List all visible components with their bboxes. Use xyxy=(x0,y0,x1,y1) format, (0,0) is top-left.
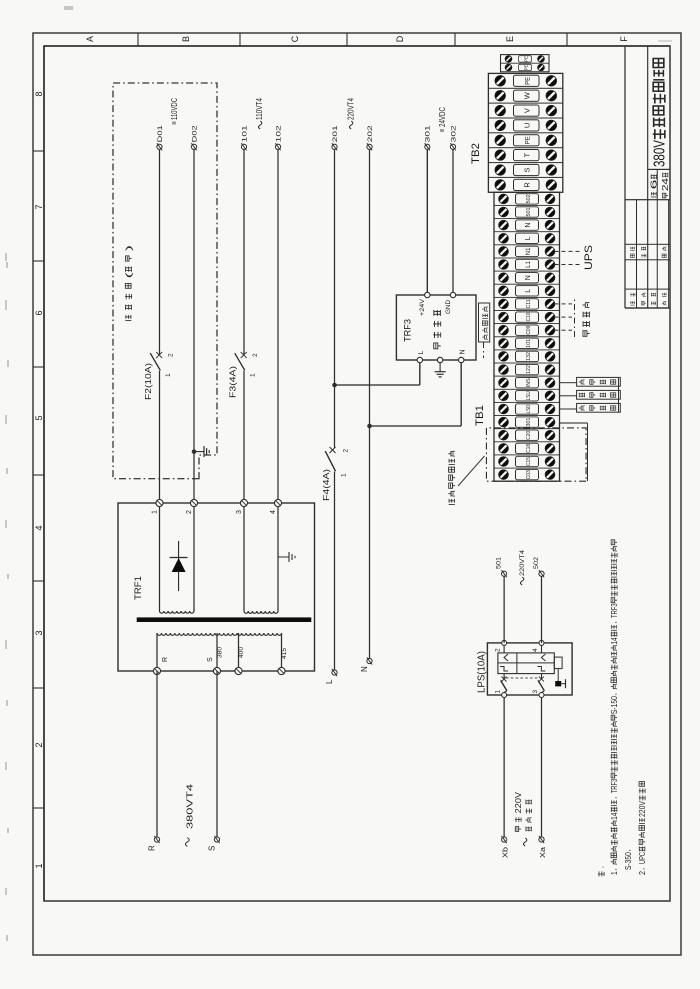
svg-text:C11: C11 xyxy=(526,299,532,308)
svg-text:GND: GND xyxy=(445,300,452,314)
svg-text:Xa: Xa xyxy=(538,846,547,858)
svg-text:24: 24 xyxy=(661,177,670,191)
TRF3 earth connection xyxy=(439,363,441,372)
svg-text:C09: C09 xyxy=(526,326,532,335)
wire 301 +24V output xyxy=(426,150,428,296)
svg-text:501: 501 xyxy=(496,557,503,569)
transformer TRF1 box xyxy=(118,503,315,671)
TB2 terminal S 2 xyxy=(488,164,562,177)
wire 502 from LPS pin 4 xyxy=(541,576,543,643)
svg-text:4: 4 xyxy=(270,510,277,514)
wire end 501 xyxy=(496,557,507,578)
fuse switch F3(4A) xyxy=(229,352,260,398)
title block header column signatures xyxy=(630,293,666,305)
scan artifact marks left edge xyxy=(6,253,8,941)
svg-text:380VT4: 380VT4 xyxy=(186,783,195,829)
ground on wire D02 xyxy=(192,446,210,457)
UPS dashed connections xyxy=(555,250,581,252)
TB1 terminal 502 pos22 xyxy=(494,194,560,206)
svg-text:2: 2 xyxy=(638,871,647,875)
wire R supply xyxy=(156,671,158,838)
svg-text:1: 1 xyxy=(495,690,502,694)
scan artifact top corner xyxy=(64,6,73,10)
TB1 terminal INS pos8 xyxy=(494,378,560,390)
svg-text:F2(10A): F2(10A) xyxy=(144,363,153,400)
svg-text:S: S xyxy=(208,846,217,851)
svg-text:132: 132 xyxy=(526,352,532,361)
TB1 terminal L pos19 xyxy=(494,233,560,245)
svg-text:L: L xyxy=(525,236,532,240)
TB1 terminal LSU pos7 xyxy=(494,391,560,403)
label 380VT4 xyxy=(185,783,194,846)
svg-text:5: 5 xyxy=(34,415,44,420)
svg-text:INS: INS xyxy=(526,378,532,388)
svg-text:A: A xyxy=(85,36,95,42)
label 220VT4 LPS output xyxy=(519,550,526,585)
svg-text:301: 301 xyxy=(526,417,532,426)
svg-text:110VDC: 110VDC xyxy=(170,98,179,120)
svg-text:380: 380 xyxy=(217,646,224,658)
svg-text:415: 415 xyxy=(281,647,288,659)
title block grid xyxy=(624,46,626,308)
wire 302 GND output xyxy=(452,150,454,296)
title block header column revision xyxy=(630,247,666,258)
svg-text:D01: D01 xyxy=(157,125,164,142)
svg-text:R: R xyxy=(148,845,157,851)
svg-text:PE: PE xyxy=(526,77,532,85)
junction on wire 201 xyxy=(332,383,337,388)
svg-text:1: 1 xyxy=(341,473,348,477)
wire Xa to LPS pin 3 xyxy=(541,698,543,838)
svg-text:TRF3: TRF3 xyxy=(610,778,619,793)
svg-text:2: 2 xyxy=(343,449,350,453)
diode D in TRF1 xyxy=(170,541,188,591)
TB1 terminal L1 pos17 xyxy=(494,259,560,271)
svg-text:102: 102 xyxy=(275,125,282,142)
svg-text:N: N xyxy=(525,223,532,228)
TB1 terminal C09 pos12 xyxy=(494,325,560,337)
shaft lighting label xyxy=(583,302,590,336)
svg-text:3: 3 xyxy=(236,510,243,514)
svg-text:LSU: LSU xyxy=(526,391,532,400)
wire end 102 xyxy=(275,125,282,150)
svg-text:L1: L1 xyxy=(526,261,532,268)
TRF1 tap 400 xyxy=(235,646,245,674)
TB1 terminal N pos16 xyxy=(494,273,560,285)
svg-text:2: 2 xyxy=(252,353,259,357)
LPS inner release box xyxy=(498,653,554,674)
svg-text:C03: C03 xyxy=(526,470,532,479)
TB1 terminal N pos20 xyxy=(494,220,560,232)
fire-center label xyxy=(448,451,455,505)
fire-center dash-dot box around C03-C20 xyxy=(486,428,586,481)
svg-text:220VT4: 220VT4 xyxy=(346,98,355,120)
svg-text:L: L xyxy=(525,289,532,293)
svg-text:S: S xyxy=(523,167,532,172)
label 110VDC xyxy=(170,98,179,125)
svg-text:4: 4 xyxy=(34,525,44,530)
wire end S xyxy=(208,836,220,851)
svg-text:380V: 380V xyxy=(652,140,669,167)
wire 101 xyxy=(243,371,245,503)
wire end D01 xyxy=(157,125,164,150)
shaft lighting dashed connections xyxy=(555,329,573,331)
TB1 terminal N1 pos18 xyxy=(494,246,560,258)
svg-text:N: N xyxy=(360,666,369,672)
TRF3 pin +24V xyxy=(419,292,430,316)
svg-text:PE: PE xyxy=(526,136,532,144)
svg-text:F3(4A): F3(4A) xyxy=(229,366,238,398)
TRF1 secondary winding 1-2 xyxy=(159,503,161,611)
grid letter band right xyxy=(44,45,670,47)
svg-text:N: N xyxy=(525,275,532,280)
wire end 202 xyxy=(367,125,374,150)
svg-text:1: 1 xyxy=(250,373,257,377)
svg-text:Xb: Xb xyxy=(501,847,510,858)
svg-text:502: 502 xyxy=(526,194,532,203)
svg-text:F: F xyxy=(619,36,629,42)
TRF3 L connection wire to 201 xyxy=(419,363,421,385)
svg-text:L: L xyxy=(418,351,425,355)
svg-text:4: 4 xyxy=(532,648,539,652)
TRF1 terminal 2 xyxy=(186,499,198,514)
wire end R xyxy=(148,836,160,851)
notes text block xyxy=(598,540,647,877)
svg-text:TRF3: TRF3 xyxy=(610,603,619,618)
TRF3 N connection wire to 202 xyxy=(460,363,462,426)
svg-text:101: 101 xyxy=(241,125,248,142)
wire D01 xyxy=(159,371,161,503)
switching power supply TRF3 box xyxy=(396,295,476,360)
svg-text:2: 2 xyxy=(168,353,175,357)
wire 501 from LPS pin 2 xyxy=(503,576,505,643)
TRF3 pin GND xyxy=(445,292,456,314)
TRF3 pin N xyxy=(459,349,467,362)
svg-text:3: 3 xyxy=(532,690,539,694)
svg-text:220VT4: 220VT4 xyxy=(519,550,526,576)
svg-text:T: T xyxy=(523,152,532,157)
TRF1 terminal 4 xyxy=(270,499,282,514)
svg-text:LPS(10A): LPS(10A) xyxy=(477,651,488,693)
svg-text:LSD: LSD xyxy=(526,404,532,413)
svg-text:(: ( xyxy=(124,272,134,278)
svg-text:R: R xyxy=(523,182,532,188)
TB1 terminal 122 pos9 xyxy=(494,364,560,376)
wire end 101 xyxy=(241,125,248,150)
wire end 301 xyxy=(425,125,432,150)
svg-text:W: W xyxy=(523,91,532,99)
no machine room label box xyxy=(479,303,490,358)
TB2 terminal T 3 xyxy=(488,150,562,163)
LPS pole 1-2 xyxy=(495,640,509,697)
wire end 502 xyxy=(533,557,544,578)
wire 202 N line xyxy=(369,150,371,660)
svg-text:S-150: S-150 xyxy=(610,696,619,715)
svg-text:2: 2 xyxy=(495,648,502,652)
svg-text:PE: PE xyxy=(524,65,529,71)
svg-text:B: B xyxy=(181,36,191,42)
LPS mechanical link xyxy=(506,677,540,679)
svg-text:220V: 220V xyxy=(514,791,523,813)
svg-text:C18: C18 xyxy=(526,444,532,453)
fuse switch F4(4A) xyxy=(322,447,350,501)
svg-text:502: 502 xyxy=(533,557,540,569)
breaker LPS(10A) box xyxy=(487,643,572,695)
TB1 terminal 132 pos10 xyxy=(494,351,560,363)
terminal strip TB1 block xyxy=(494,192,560,481)
label 220VT4 xyxy=(346,98,355,129)
TRF1 tap S 380 xyxy=(207,646,224,674)
wire 201 L line xyxy=(334,472,336,671)
svg-text:UPS: UPS xyxy=(583,245,595,270)
title block page count cells xyxy=(650,173,670,198)
TB2 terminal W 7 xyxy=(488,90,562,103)
svg-text:C20: C20 xyxy=(526,431,532,440)
wire end D02 xyxy=(191,125,198,150)
TB1 terminal C03 pos1 xyxy=(499,469,555,479)
TB1 terminal C11 pos14 xyxy=(494,299,560,311)
wire Xb to LPS pin 1 xyxy=(503,698,505,838)
TRF1 primary winding xyxy=(157,633,282,635)
earth on TRF1 winding 3-4 xyxy=(278,552,295,562)
wire 102 xyxy=(277,150,279,504)
svg-text:PE: PE xyxy=(524,56,529,62)
wire S supply xyxy=(216,671,218,838)
terminal strip TB2 block xyxy=(488,73,562,192)
svg-text:D: D xyxy=(395,35,405,42)
svg-text:302: 302 xyxy=(450,125,457,142)
TRF1 terminal 1 xyxy=(152,499,164,514)
small terminal cell 1 xyxy=(505,64,544,71)
svg-text:6: 6 xyxy=(34,310,44,315)
svg-text:220V: 220V xyxy=(638,801,647,817)
title text 380V power supply circuit diagram xyxy=(652,59,669,168)
stop-lift label boxes INS LSU LSD xyxy=(560,377,621,386)
junction on wire 202 xyxy=(367,424,372,429)
small terminal cell 2 xyxy=(505,56,544,63)
wire D02 xyxy=(193,150,195,504)
TRF3 pin L xyxy=(417,351,425,363)
label 24VDC xyxy=(438,107,447,132)
svg-text:C10: C10 xyxy=(526,312,532,321)
wire end 201 xyxy=(332,125,339,150)
svg-text:1: 1 xyxy=(152,510,159,514)
TRF3 pin earth xyxy=(437,357,442,362)
TB1 terminal C20 pos4 xyxy=(494,430,560,442)
svg-text:+24V: +24V xyxy=(419,299,426,316)
svg-text:TB1: TB1 xyxy=(474,405,486,426)
svg-text:24VDC: 24VDC xyxy=(438,107,447,127)
wire end L xyxy=(325,669,337,684)
TRF1 secondary winding 3-4 xyxy=(243,503,245,611)
TB1 terminal C18 pos3 xyxy=(494,443,560,455)
TB2 terminal V 6 xyxy=(488,105,562,118)
svg-text:2: 2 xyxy=(186,510,193,514)
TB1 terminal LSD pos6 xyxy=(494,404,560,416)
svg-text:8: 8 xyxy=(34,91,44,96)
TB2 terminal PE 8 xyxy=(488,75,562,88)
svg-text:1: 1 xyxy=(165,373,172,377)
svg-text:400: 400 xyxy=(238,646,245,658)
svg-text:101: 101 xyxy=(526,339,532,348)
dash-dot optional box around D01/D02 circuit xyxy=(113,83,217,479)
svg-text:N1: N1 xyxy=(526,247,532,255)
svg-text:V: V xyxy=(523,108,532,113)
TB2 terminal U 5 xyxy=(488,120,562,133)
grid number band top xyxy=(43,46,45,901)
TRF1 core bar xyxy=(137,617,312,622)
fuse switch F2(10A) xyxy=(144,352,175,400)
wire end Xb xyxy=(501,836,510,858)
svg-text:): ) xyxy=(124,245,134,251)
svg-text:S: S xyxy=(207,657,214,662)
svg-text:501: 501 xyxy=(526,207,532,216)
svg-text:L: L xyxy=(325,679,334,684)
TB1 terminal 301 pos5 xyxy=(494,417,560,429)
svg-text:N: N xyxy=(460,349,467,354)
svg-text:201: 201 xyxy=(332,125,339,142)
TRF1 terminal 3 xyxy=(236,499,248,514)
svg-text:14: 14 xyxy=(610,637,619,645)
svg-text:6: 6 xyxy=(650,180,659,190)
svg-text:UPC: UPC xyxy=(638,852,647,864)
label 110VT4 xyxy=(255,98,264,129)
TRF3 kaiguan dianyuan label xyxy=(433,310,440,349)
TB1 terminal L pos15 xyxy=(494,286,560,298)
svg-text:301: 301 xyxy=(425,125,432,142)
svg-text:2: 2 xyxy=(34,742,44,747)
label user 220V lighting supply xyxy=(514,791,532,846)
stop-lift boxes connector line xyxy=(618,378,620,412)
svg-text:7: 7 xyxy=(34,204,44,209)
TB1 terminal 501 pos21 xyxy=(494,207,560,219)
optional box label xyxy=(124,245,134,321)
terminal strip small cells block xyxy=(501,55,550,72)
wire end 302 xyxy=(450,125,457,150)
svg-text:D02: D02 xyxy=(191,125,198,142)
TRF1 tap R xyxy=(153,657,169,675)
TB2 terminal R 1 xyxy=(495,179,557,190)
svg-text:122: 122 xyxy=(526,365,532,374)
svg-text:TRF3: TRF3 xyxy=(403,319,413,342)
svg-text:S-350: S-350 xyxy=(624,852,633,870)
LPS pole 3-4 xyxy=(532,640,546,697)
svg-text:110VT4: 110VT4 xyxy=(255,98,264,120)
TB1 terminal 101 pos11 xyxy=(494,338,560,350)
fire-center pointer line xyxy=(458,456,485,486)
TB1 terminal C15 pos2 xyxy=(494,456,560,468)
LPS trip element xyxy=(554,657,565,688)
svg-text:1: 1 xyxy=(610,871,619,875)
svg-text:3: 3 xyxy=(34,630,44,635)
TRF1 tap 415 xyxy=(278,647,288,674)
svg-text:C: C xyxy=(290,35,300,42)
svg-text:1: 1 xyxy=(34,863,44,868)
svg-text:TB2: TB2 xyxy=(470,143,482,164)
wire end N xyxy=(360,657,372,672)
svg-text:202: 202 xyxy=(367,125,374,142)
svg-text:E: E xyxy=(505,36,515,42)
svg-text:U: U xyxy=(523,123,532,128)
svg-text:TRF1: TRF1 xyxy=(133,576,144,600)
wire from 301 terminal around box xyxy=(560,422,588,424)
TB2 terminal PE 4 xyxy=(488,135,562,148)
inner border frame xyxy=(44,46,670,901)
svg-text:F4(4A): F4(4A) xyxy=(322,469,331,501)
TB1 terminal C10 pos13 xyxy=(494,312,560,324)
svg-text:R: R xyxy=(162,657,169,662)
svg-text:14: 14 xyxy=(610,812,619,820)
wire end Xa xyxy=(538,836,547,858)
svg-text:C15: C15 xyxy=(526,457,532,466)
